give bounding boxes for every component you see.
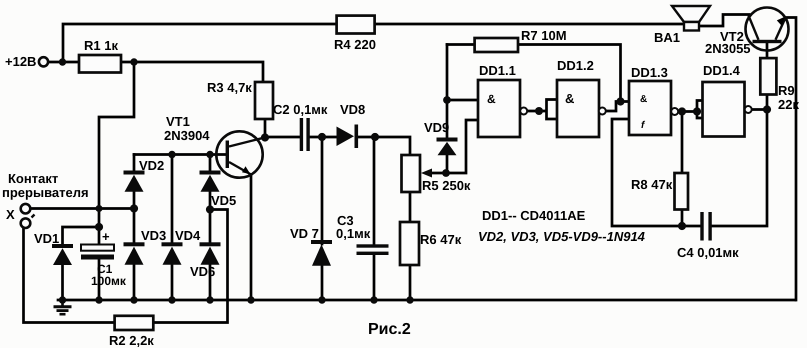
svg-text:2N3055: 2N3055 bbox=[705, 41, 751, 56]
svg-text:DD1.2: DD1.2 bbox=[557, 58, 594, 73]
wire DD1.3 lower input feedback bbox=[612, 119, 701, 226]
wire collector row to C2/VD8/R5 bbox=[265, 119, 410, 155]
resistor R9 bbox=[760, 58, 776, 94]
wire R1 node down to C1 column bbox=[99, 62, 134, 245]
wire DD1.1 upper input bbox=[447, 99, 478, 102]
wire VD1 bottom lead bbox=[61, 265, 64, 301]
wire R7 left bbox=[447, 43, 475, 46]
resistor R3 bbox=[255, 82, 273, 119]
svg-text:&: & bbox=[487, 92, 496, 106]
wire VD5-VD6 node to R2 bbox=[153, 210, 227, 323]
svg-text:R5 250к: R5 250к bbox=[422, 178, 471, 193]
label C1 bbox=[91, 229, 127, 288]
wire breaker contact row bbox=[31, 207, 134, 210]
resistor R7 bbox=[475, 38, 518, 52]
wire VD1 top link bbox=[63, 227, 100, 245]
capacitor C4 bbox=[700, 212, 712, 241]
wire VT1 emitter down bbox=[250, 175, 253, 301]
wire R7 right to DD1.3 input node bbox=[518, 45, 621, 102]
resistor R1 bbox=[79, 55, 121, 73]
svg-text:R3 4,7к: R3 4,7к bbox=[207, 80, 252, 95]
wire R9 to VT2 base bbox=[766, 43, 769, 110]
terminal X lower bbox=[21, 215, 35, 229]
svg-text:&: & bbox=[640, 94, 647, 105]
NAND gate DD1.3 bbox=[629, 81, 678, 135]
wire R5 to R6 to rail bbox=[409, 192, 412, 300]
svg-text:VD8: VD8 bbox=[340, 102, 365, 117]
NAND gate DD1.2 bbox=[557, 80, 606, 137]
wire C3 column bbox=[373, 137, 376, 300]
diode VD9 bbox=[437, 138, 458, 156]
svg-text:VD5: VD5 bbox=[211, 193, 236, 208]
wire VT2 emitter to right edge down bbox=[786, 18, 796, 301]
svg-text:прерывателя: прерывателя bbox=[2, 185, 89, 200]
svg-text:VD3: VD3 bbox=[141, 228, 166, 243]
terminal +12V bbox=[39, 57, 48, 66]
label VT1 bbox=[164, 114, 210, 143]
diode VD6 bbox=[200, 242, 221, 264]
resistor R6 bbox=[400, 222, 419, 265]
resistor R5 (trimmer) bbox=[402, 155, 421, 192]
wire R8 column bbox=[681, 112, 684, 227]
wire VT1 base row bbox=[134, 153, 226, 156]
svg-text:22к: 22к bbox=[778, 97, 799, 112]
label C3 bbox=[336, 213, 371, 241]
terminal X upper bbox=[21, 204, 31, 214]
ground symbol bbox=[54, 300, 72, 314]
R5 wiper arrowhead bbox=[421, 169, 432, 178]
diode VD1 bbox=[52, 244, 73, 265]
wire R2 to lower contact bbox=[24, 228, 115, 323]
wire DD1.1 lower input bbox=[446, 120, 478, 173]
svg-text:DD1.4: DD1.4 bbox=[703, 63, 741, 78]
transistor VT2 bbox=[746, 8, 789, 51]
wire R7/VD9 column bbox=[446, 45, 449, 174]
NAND gate DD1.1 bbox=[478, 80, 527, 137]
svg-text:VD4: VD4 bbox=[175, 228, 201, 243]
NAND gate DD1.4 bbox=[703, 82, 752, 137]
resistor R2 bbox=[115, 316, 154, 330]
svg-text:R6 47к: R6 47к bbox=[420, 232, 462, 247]
svg-text:+12В: +12В bbox=[5, 54, 36, 69]
wire DD1.3 output to DD1.4 inputs bbox=[678, 101, 703, 119]
svg-text:R9: R9 bbox=[778, 83, 795, 98]
svg-text:C4 0,01мк: C4 0,01мк bbox=[677, 245, 739, 260]
svg-text:&: & bbox=[565, 91, 574, 106]
wire DD1.2 output to DD1.3 upper input bbox=[606, 102, 630, 112]
svg-text:100мк: 100мк bbox=[91, 274, 127, 288]
wire top +12V rail bbox=[63, 24, 684, 62]
svg-text:Рис.2: Рис.2 bbox=[368, 321, 411, 338]
transistor VT1 bbox=[216, 131, 263, 177]
wire C1 bottom lead bbox=[98, 260, 101, 301]
wire DD1.1 output to DD1.2 inputs bbox=[527, 100, 557, 120]
capacitor C3 bbox=[357, 244, 389, 255]
wire rail to VT2 collector bbox=[699, 15, 749, 27]
diode VD3 bbox=[124, 242, 145, 264]
label Kontakt preryvatelya bbox=[2, 171, 89, 200]
svg-text:DD1-- CD4011AE: DD1-- CD4011AE bbox=[482, 208, 586, 223]
svg-text:R4 220: R4 220 bbox=[334, 37, 376, 52]
svg-text:DD1.3: DD1.3 bbox=[631, 65, 668, 80]
svg-text:VD2: VD2 bbox=[139, 158, 164, 173]
svg-text:2N3904: 2N3904 bbox=[164, 128, 210, 143]
wire DD1.4 output node bbox=[752, 108, 768, 111]
label VT2 bbox=[705, 29, 751, 56]
diode VD7 bbox=[311, 240, 332, 266]
resistor R8 bbox=[675, 173, 689, 210]
svg-text:R2 2,2к: R2 2,2к bbox=[109, 333, 154, 348]
svg-text:VD6: VD6 bbox=[190, 264, 215, 279]
diode VD8 bbox=[337, 125, 359, 149]
wire VD4 column bbox=[171, 155, 174, 301]
capacitor C2 bbox=[300, 118, 310, 151]
wire C4 right to DD1.4 output bbox=[712, 110, 768, 227]
svg-text:Контакт: Контакт bbox=[8, 171, 58, 186]
svg-text:R8 47к: R8 47к bbox=[631, 177, 673, 192]
svg-text:VT1: VT1 bbox=[166, 114, 190, 129]
svg-text:C2 0,1мк: C2 0,1мк bbox=[273, 102, 328, 117]
svg-text:VD9: VD9 bbox=[424, 120, 449, 135]
svg-text:0,1мк: 0,1мк bbox=[336, 226, 371, 241]
svg-text:VD2, VD3, VD5-VD9--1N914: VD2, VD3, VD5-VD9--1N914 bbox=[478, 229, 646, 244]
wire bottom ground rail bbox=[58, 299, 795, 302]
speaker BA1 bbox=[672, 6, 710, 31]
diode VD5 bbox=[200, 171, 221, 192]
svg-text:VD 7: VD 7 bbox=[290, 226, 319, 241]
svg-text:R7 10M: R7 10M bbox=[521, 28, 567, 43]
wire R5 wiper arrow bbox=[428, 172, 446, 175]
diode VD4 bbox=[162, 242, 183, 264]
svg-text:R1 1к: R1 1к bbox=[84, 38, 118, 53]
svg-text:BA1: BA1 bbox=[654, 30, 680, 45]
diode VD2 bbox=[124, 171, 145, 192]
wire VD2 column bbox=[133, 155, 136, 301]
wire +12V terminal to R1 bbox=[48, 61, 79, 64]
wire R1 to R3 top bbox=[121, 62, 263, 82]
wire VD7 column bbox=[321, 137, 324, 300]
svg-text:+: + bbox=[102, 229, 110, 244]
svg-text:X: X bbox=[6, 207, 15, 222]
wire VD5/VD6 column bbox=[209, 155, 212, 301]
resistor R4 bbox=[337, 16, 375, 34]
label R9 bbox=[778, 83, 799, 112]
capacitor C1 (electrolytic) bbox=[81, 245, 114, 260]
svg-text:DD1.1: DD1.1 bbox=[479, 63, 516, 78]
svg-text:VD1: VD1 bbox=[34, 231, 59, 246]
